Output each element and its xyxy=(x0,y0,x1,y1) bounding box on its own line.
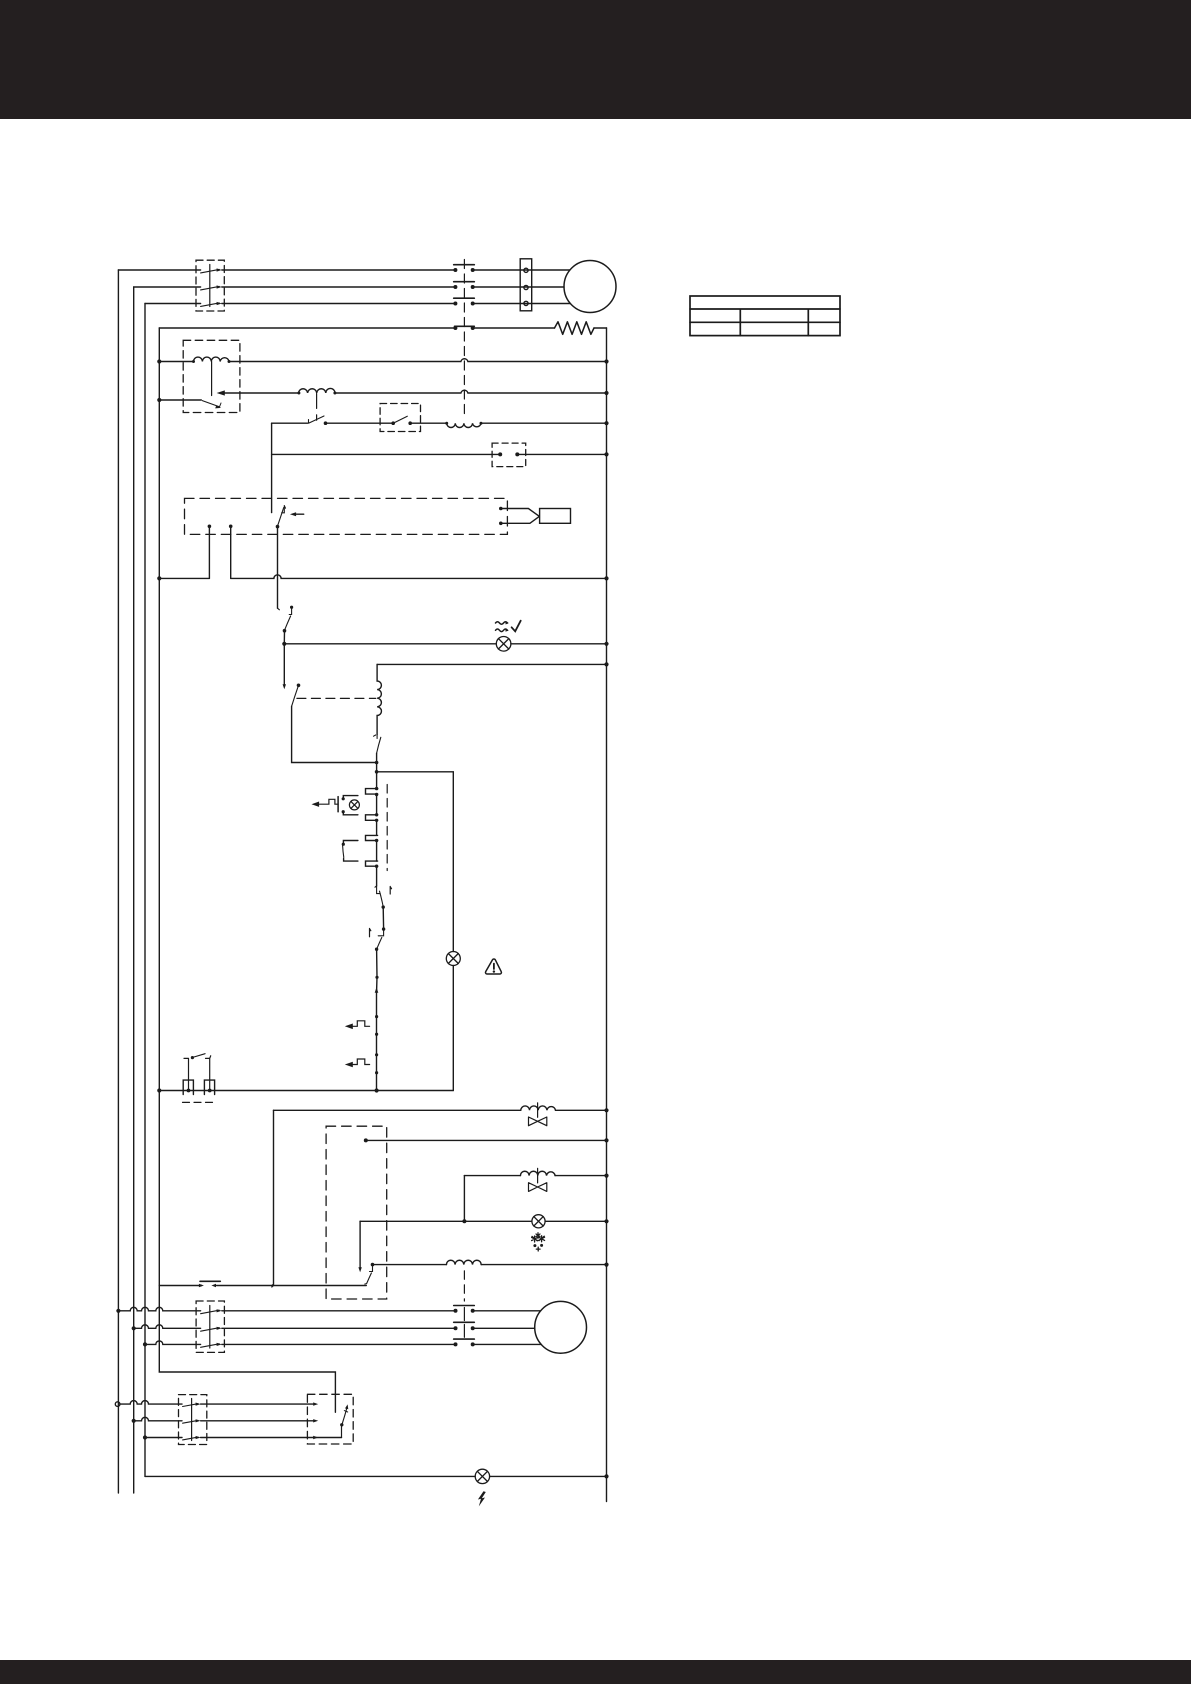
door contact stub A xyxy=(208,525,212,529)
timer contact C2 xyxy=(366,813,379,822)
wire S2 drop and across xyxy=(292,706,377,762)
node bus row664 xyxy=(604,662,608,666)
main contact set (bridge contacts) xyxy=(453,265,474,330)
door safety contact xyxy=(199,1281,220,1287)
lamp rinse-aid xyxy=(496,637,511,652)
wire heater row A with hops xyxy=(120,1401,182,1404)
node L2 row1420 xyxy=(132,1419,136,1423)
lamp power xyxy=(475,1469,489,1483)
node bracket2 xyxy=(208,1089,212,1093)
wire S1 to lamp row xyxy=(283,631,285,644)
wire row 1285.5 left xyxy=(159,1285,201,1287)
wire row 393 with coil and hop to bus xyxy=(224,388,607,393)
node bus row1110 xyxy=(604,1108,608,1112)
footer bar xyxy=(0,1660,1191,1684)
tick 1016 xyxy=(375,1015,378,1018)
node L4 row361 xyxy=(157,359,161,363)
wire row L2 to contact xyxy=(134,286,201,288)
relay RL1 right post xyxy=(206,1056,211,1091)
switch S1 post xyxy=(289,606,293,615)
wire row2 xyxy=(222,286,456,288)
relay K1 coil box xyxy=(183,340,240,412)
wire row 1090.5 xyxy=(159,1090,453,1092)
node bus row644 xyxy=(604,642,608,646)
wire drop x273.5 xyxy=(272,1110,274,1286)
wire salt lamp row xyxy=(360,1220,532,1222)
wire door drop x277.5 xyxy=(277,527,279,609)
wire row L1 to contact xyxy=(118,269,200,271)
valve V1 body xyxy=(529,1117,547,1126)
node bus bottom xyxy=(604,1474,608,1478)
header bar xyxy=(0,0,1191,119)
contactor K2 xyxy=(196,1301,224,1352)
lamp2 moving bar xyxy=(337,797,339,812)
valve V2 body xyxy=(529,1183,547,1192)
wire row4 heater line xyxy=(159,327,455,329)
wire row3 xyxy=(222,303,456,305)
node S3 right xyxy=(324,421,328,425)
terminal block xyxy=(520,259,532,311)
valve V1 stem xyxy=(537,1103,539,1117)
timer switch throw wire xyxy=(359,1221,361,1268)
wire resistor to bus corner xyxy=(594,327,607,329)
node bus row393 xyxy=(604,391,608,395)
selector arrow row C xyxy=(313,1436,318,1439)
node L3 row1344 xyxy=(143,1342,147,1346)
door assembly dashed box xyxy=(185,498,508,534)
wire row 361.5 to bus with hop xyxy=(229,359,607,362)
voltage icon xyxy=(478,1491,486,1506)
wire M2 row1 with hops xyxy=(118,1307,200,1311)
node L4 row1090 xyxy=(157,1088,161,1092)
timer switch blade xyxy=(365,1273,372,1284)
wire bottom lamp row xyxy=(145,1475,475,1477)
motor M1 xyxy=(564,261,616,313)
selector arrow row B xyxy=(313,1419,318,1422)
step arrow 1 xyxy=(345,1021,370,1029)
wire B down with jog xyxy=(376,949,379,1090)
node L1 row1404 (open) xyxy=(115,1402,120,1407)
wire switch row 423 start xyxy=(272,422,308,424)
wire valve2 to bus xyxy=(555,1175,606,1177)
transformer TR coil xyxy=(377,664,381,734)
door actuation arrow xyxy=(295,513,304,515)
rinse-aid icon xyxy=(496,621,521,632)
wire C4 to switch A xyxy=(376,866,378,886)
selector common blade xyxy=(340,1404,348,1437)
node L4 row578 xyxy=(157,576,161,580)
node bus row454 xyxy=(604,452,608,456)
heater contactor K3 xyxy=(179,1395,207,1445)
node bus row1140 xyxy=(604,1138,608,1142)
relay RL1 bracket 1 xyxy=(183,1080,193,1094)
mechanical link of contact set xyxy=(463,260,465,418)
relay RL1 blade xyxy=(193,1054,205,1058)
relay RL1 left post xyxy=(184,1058,189,1090)
up arrow on chain xyxy=(375,987,379,992)
NTC sensor body xyxy=(540,509,571,524)
node S1 bottom xyxy=(283,629,287,633)
wire valve1 row xyxy=(274,1109,521,1111)
wire coil3 to bus xyxy=(481,422,607,424)
valve V2 coil xyxy=(520,1171,555,1175)
info table xyxy=(690,296,840,336)
switch S2 blade xyxy=(292,687,298,707)
resistor (flow heater) xyxy=(555,322,595,335)
timer contact C4 xyxy=(366,861,379,868)
coil of relay K1 on row 361.5 xyxy=(159,357,229,361)
tick at x273 junction xyxy=(272,1286,274,1288)
mechanical link C1-C4 xyxy=(386,785,388,871)
door switch blade xyxy=(278,508,284,527)
salt icon xyxy=(532,1233,545,1251)
node bus row361 xyxy=(604,359,608,363)
wires K2 to motor contacts xyxy=(222,1311,456,1345)
timer contact C3 xyxy=(366,835,379,842)
step arrow 2 xyxy=(345,1059,370,1067)
tick 1034 xyxy=(375,1033,378,1036)
wire pump to bus xyxy=(481,1264,606,1266)
tick 977 xyxy=(375,976,378,979)
wire to coil3 xyxy=(410,422,447,424)
wire C3-C4 xyxy=(376,841,378,862)
door switch fixed post xyxy=(282,506,286,513)
lamp2 branch lower stub xyxy=(343,812,358,814)
wire lamp to bus xyxy=(490,1475,607,1477)
wire heater row B with hop xyxy=(134,1417,182,1420)
program timer dashed box xyxy=(326,1126,387,1299)
node 771.8 xyxy=(375,770,379,774)
relay RL1 dashed base xyxy=(183,1101,217,1103)
wire M2 row2 with hops xyxy=(134,1325,201,1329)
switch A xyxy=(375,886,392,909)
relay RL1 bracket 2 xyxy=(204,1080,214,1094)
node 762.5 xyxy=(375,761,379,765)
wire valve2 drop xyxy=(463,1176,465,1222)
node bracket1 xyxy=(187,1089,191,1093)
door contact stub B xyxy=(229,525,233,529)
relay K1 armature link xyxy=(211,362,213,396)
timer contact C1 xyxy=(366,787,379,796)
wire lamp program drop xyxy=(452,966,454,1091)
tick end xyxy=(278,608,280,610)
wire salt lamp to bus xyxy=(545,1220,606,1222)
timer switch pivot xyxy=(370,1263,375,1272)
node bus row578 xyxy=(604,576,608,580)
wire M2 row3 with hop xyxy=(145,1341,201,1344)
node L4 row400 xyxy=(157,398,161,402)
wires heater rows to selector xyxy=(201,1404,342,1437)
lamp program xyxy=(446,952,460,966)
tick 1073 xyxy=(375,1071,378,1074)
wire A-B xyxy=(382,907,384,929)
motor M2 xyxy=(535,1301,587,1353)
TR thermal switch blade xyxy=(377,737,381,753)
wires contacts to motor M2 xyxy=(473,1311,542,1345)
lamp salt xyxy=(532,1215,545,1228)
warning triangle xyxy=(485,959,501,974)
wire C1-C2 xyxy=(376,794,378,815)
wire row 454.4 left xyxy=(272,453,501,455)
NC bridging switch blade xyxy=(343,845,344,857)
switch S2 pivot xyxy=(297,684,301,688)
NC bridging switch lower stub xyxy=(344,859,358,862)
node bus row423 xyxy=(604,421,608,425)
wire drop to S2 with end arrow xyxy=(283,644,285,686)
wire lamp row left xyxy=(284,643,496,645)
lamp2 branch upper stub xyxy=(343,796,358,798)
wires contacts to terminal block xyxy=(473,270,571,304)
node bus row1264 xyxy=(604,1263,608,1267)
vertical drop x271.6 xyxy=(271,423,273,512)
relay K1 switch blade xyxy=(202,401,221,409)
pump mech link xyxy=(463,1271,465,1301)
wire row4 to resistor xyxy=(473,327,555,329)
phase bus L2 xyxy=(133,287,135,1493)
control bus L4 xyxy=(159,328,335,1412)
wire TR top row to bus xyxy=(377,663,606,665)
wire row 578.4 with hop xyxy=(159,575,606,579)
wire row L3 to contact xyxy=(145,303,201,305)
right vertical bus xyxy=(606,328,608,1502)
wire valve1 to bus xyxy=(556,1109,607,1111)
wire lamp row right xyxy=(511,643,607,645)
moving contact arrow row 393 xyxy=(217,390,225,395)
selector arrow row A xyxy=(313,1402,318,1405)
switch B xyxy=(370,929,384,951)
coil end dots xyxy=(192,360,195,363)
interlock switch blade xyxy=(391,416,412,425)
heat selector box xyxy=(307,1394,353,1444)
node row1140 start xyxy=(364,1138,368,1142)
coil (motor protector) on row 423 xyxy=(447,423,481,427)
interlock switch box SB1 xyxy=(380,404,420,432)
wire pump row xyxy=(373,1264,447,1266)
node L3 row1437 xyxy=(143,1435,147,1439)
phase bus L3 xyxy=(144,304,146,1477)
TR thermal switch tick xyxy=(374,735,378,739)
connector CN1 xyxy=(492,443,526,467)
NC bridging switch upper stub xyxy=(343,841,358,844)
node bus row1221 xyxy=(604,1219,608,1223)
wire row 771.8 to right drop xyxy=(377,772,454,952)
node chain bottom xyxy=(375,1088,379,1092)
relay coil2 armature link xyxy=(316,394,318,421)
valve V2 stem xyxy=(537,1168,539,1183)
contactor K1 xyxy=(196,260,224,311)
wire row 454.4 right xyxy=(517,453,606,455)
wire C2-C3 xyxy=(376,820,378,835)
transformer tap dashed wire xyxy=(297,697,376,699)
wire K1 to overload contacts row1 xyxy=(222,269,456,271)
switch S1 blade xyxy=(285,616,291,630)
tick 1055 xyxy=(375,1053,378,1056)
node bus row1175 xyxy=(604,1174,608,1178)
wire TR bottom junctions xyxy=(376,753,378,788)
phase bus L1 xyxy=(117,270,119,1493)
wire L4 to blade xyxy=(159,399,201,401)
wire row 1285.5 right xyxy=(217,1285,367,1287)
node row 643.8 xyxy=(282,642,286,646)
wire row 1140.4 xyxy=(366,1139,607,1141)
motor contact set xyxy=(454,1306,475,1347)
wire valve2 row xyxy=(464,1175,520,1177)
pump motor coil xyxy=(446,1260,481,1264)
wire to door-interlock box xyxy=(326,422,393,424)
wire heater row C xyxy=(145,1437,182,1439)
lamp program-end xyxy=(349,800,359,810)
node L2 row1328 xyxy=(132,1326,136,1330)
node 464/1221 xyxy=(462,1219,466,1223)
switch S3 blade xyxy=(309,416,325,423)
valve V1 coil xyxy=(521,1106,556,1110)
node door switch lower xyxy=(276,525,280,529)
NTC sensor leads xyxy=(499,507,539,525)
node L1 row1310 xyxy=(116,1309,120,1313)
step arrow at lamp2 xyxy=(312,799,339,807)
